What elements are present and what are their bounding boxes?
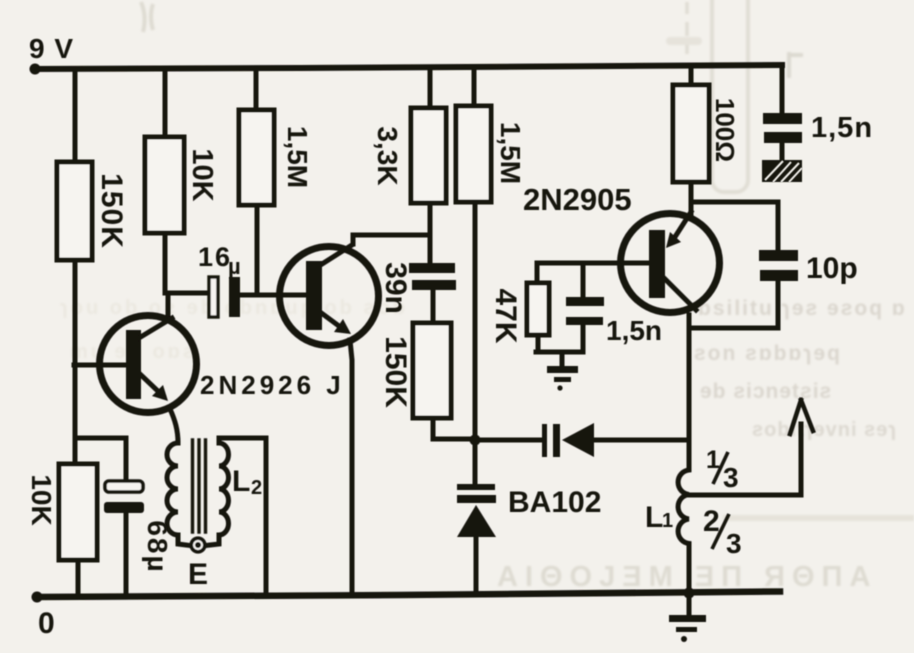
wire node to series diode	[475, 438, 543, 443]
wire R8 bottom to varicap node	[433, 418, 475, 439]
svg-text:BA102: BA102	[508, 486, 601, 519]
svg-text:10K: 10K	[186, 148, 218, 201]
terminal E dot	[195, 542, 201, 548]
wire Q3 collector to L1	[687, 315, 692, 440]
svg-text:2N2926 J: 2N2926 J	[200, 370, 345, 400]
wire series diode to L1 top	[594, 438, 689, 443]
transistor Q1 collector stroke	[139, 318, 172, 338]
svg-text:1,5n: 1,5n	[811, 112, 873, 144]
svg-text:2: 2	[703, 505, 720, 538]
svg-text:3: 3	[726, 528, 742, 559]
svg-text:150K: 150K	[95, 173, 128, 249]
ground L1 bar2	[676, 627, 697, 632]
wire C4 bottom lead	[581, 325, 586, 352]
wire C3 to R8 150K	[431, 290, 436, 323]
wire C6 bottom to Q3 collector	[689, 281, 778, 328]
node varicap junction dot	[470, 435, 481, 446]
svg-text:µ: µ	[228, 254, 241, 279]
transistor Q3 collector stroke	[664, 278, 696, 310]
chassis ground hatched block	[762, 160, 802, 182]
svg-text:47K: 47K	[489, 288, 522, 343]
wire emitter node to C6 10p	[691, 202, 778, 250]
svg-text:L: L	[232, 465, 250, 498]
svg-text:39n: 39n	[379, 262, 412, 314]
wire junction down to Q1 collector	[166, 293, 171, 316]
resistor R6 100	[673, 85, 709, 182]
wire node down to D1 BA102	[473, 440, 478, 484]
capacitor C3 39n bottom plate	[412, 280, 456, 290]
wire Q2 emitter to 0 rail	[350, 340, 352, 595]
diode D1 BA102 bar	[457, 495, 496, 503]
inductor L2 secondary coil	[219, 443, 229, 535]
ground stub below L1	[687, 594, 692, 615]
node L1 ground junction dot	[684, 588, 695, 599]
ghost mark top right	[789, 52, 803, 78]
svg-text:0: 0	[38, 607, 55, 640]
svg-text:1,5M: 1,5M	[282, 126, 313, 188]
wire Q3 base	[537, 261, 649, 266]
wire rail end drop to C5 1,5n	[780, 65, 785, 113]
svg-text:ɘb ƨiɔnɘtƨiƨ: ɘb ƨiɔnɘtƨiƨ	[700, 380, 832, 403]
ground L1 dot	[681, 636, 687, 642]
ground bias bar2	[554, 377, 571, 382]
terminal E ring	[191, 538, 205, 552]
wire C5 to chassis ground	[780, 143, 785, 161]
transistor Q2 base bar	[306, 261, 322, 330]
svg-text:1,5n: 1,5n	[606, 315, 662, 346]
wire Q1 emitter to L2	[170, 409, 178, 443]
resistor R4 3,3K	[411, 108, 446, 203]
wire D1 to 0 rail	[474, 537, 479, 594]
wire C1 to Q2 base	[240, 293, 307, 298]
wire R2 bottom to C1 junction	[163, 233, 168, 293]
ground bias bar1	[547, 366, 578, 373]
transistor Q2 emitter arrowhead	[334, 319, 351, 334]
ground stub bias network	[560, 352, 565, 366]
wire R1 bottom to base column	[73, 260, 78, 464]
capacitor C2 68u bottom plate	[104, 502, 144, 513]
resistor R3 1,5M	[239, 110, 274, 205]
transistor Q2 collector stroke	[322, 245, 352, 264]
wire L2 secondary top to ground line	[219, 438, 266, 595]
svg-text:3,3K: 3,3K	[372, 126, 403, 185]
transistor Q1 2N2926 circle	[100, 316, 197, 413]
transistor Q2 circle	[280, 247, 379, 346]
svg-text:1: 1	[662, 510, 673, 532]
transistor Q3 2N2905 circle	[621, 214, 720, 313]
antenna arrowhead	[790, 400, 813, 434]
wire 0 bottom rail	[37, 592, 780, 598]
svg-text:10K: 10K	[26, 474, 57, 525]
wire R3 bottom to Q2 base node	[255, 205, 260, 295]
ghost marks top left	[141, 2, 153, 32]
wire L1 tap to antenna	[690, 424, 801, 495]
resistor R2 10K	[145, 137, 184, 233]
node 0 rail dot	[32, 592, 43, 603]
wire Q2 collector to R4/C3 junction	[353, 235, 430, 244]
inductor L1 coil	[678, 440, 689, 594]
wire R7 bottom to 0 rail	[76, 560, 81, 596]
wire base corner to R9 47K	[535, 263, 540, 283]
svg-text:1,5M: 1,5M	[495, 122, 526, 184]
svg-text:L: L	[645, 501, 663, 534]
wire tee to C2 68u	[75, 438, 126, 481]
svg-text:100Ω: 100Ω	[710, 98, 740, 162]
wire R4 bottom to C3 39n	[428, 203, 433, 263]
transistor Q3 emitter stroke	[673, 212, 691, 240]
capacitor C2 68u top plate	[105, 481, 143, 492]
node 9V rail dot	[30, 64, 41, 75]
resistor R8 150K	[413, 323, 451, 418]
svg-text:2N2905: 2N2905	[523, 182, 632, 217]
diode D1 BA102 triangle	[457, 505, 496, 537]
label tap 1/3 slash	[713, 452, 728, 484]
ground L1 bar1	[669, 615, 706, 622]
wire L2 secondary bottom to E terminal	[206, 535, 219, 546]
ghost dashed line top right	[685, 2, 689, 54]
wire bias bottom bus	[536, 350, 583, 355]
transistor Q2 emitter stroke	[320, 312, 343, 329]
capacitor C6 10p bottom plate	[760, 270, 798, 281]
wire rail drop to R5 1,5M	[472, 67, 477, 106]
capacitor C1 16u left plate	[209, 277, 218, 317]
svg-text:2: 2	[251, 477, 262, 499]
capacitor C4 1,5n bottom plate	[566, 317, 603, 325]
svg-text:ɒsilitu ɿɘƨ ɘƨoq ɒ: ɒsilitu ɿɘƨ ɘƨoq ɒ	[698, 297, 907, 320]
resistor R9 47K	[527, 283, 549, 335]
wire R5 bottom to varicap node	[473, 202, 478, 440]
wire R9 bottom	[537, 335, 538, 352]
svg-text:3: 3	[723, 462, 739, 493]
wire R6 bottom to Q3 emitter	[689, 182, 694, 214]
wire L2 primary bottom to E terminal	[178, 535, 190, 546]
wire rail drop to R6 100	[689, 66, 694, 85]
ghost column top right	[712, 0, 748, 192]
capacitor series right plate	[553, 424, 560, 457]
wire C4 top lead	[581, 263, 586, 297]
inductor L2 core lines	[193, 440, 206, 532]
wire rail drop to R4 3,3K	[428, 67, 433, 108]
capacitor C5 1,5n top plate	[763, 113, 802, 124]
wire rail drop to R3 1,5M	[254, 68, 259, 110]
svg-text:9 V: 9 V	[29, 33, 74, 64]
wire junction to C1 16u	[165, 291, 210, 296]
svg-text:E: E	[188, 558, 208, 591]
resistor R7 10K lower	[59, 464, 97, 560]
svg-text:68µ: 68µ	[142, 520, 173, 573]
transistor Q1 emitter arrowhead	[152, 385, 168, 401]
wire 9V top rail	[35, 65, 782, 69]
inductor L2 primary coil	[167, 443, 178, 535]
resistor R1 150K	[57, 162, 92, 260]
ground bias dot	[557, 385, 562, 390]
svg-text:16: 16	[198, 242, 232, 272]
wire rail drop to R2 10K	[163, 68, 168, 137]
svg-text:10p: 10p	[806, 252, 858, 285]
svg-text:ƨobitɿɘvni ƨɘɿ: ƨobitɿɘvni ƨɘɿ	[752, 419, 897, 441]
capacitor series left plate	[542, 424, 547, 457]
capacitor C6 10p top plate	[759, 250, 798, 261]
wire C2 to 0 rail	[124, 513, 129, 596]
svg-text:150K: 150K	[379, 336, 412, 408]
wire rail drop to R1 150K	[73, 69, 78, 162]
diode series triangle	[562, 423, 594, 457]
wire base tap to Q1	[74, 363, 127, 368]
ghost light rule	[723, 515, 914, 521]
transistor Q3 emitter arrowhead	[666, 232, 681, 248]
label tap 2/3 slash	[712, 514, 729, 549]
capacitor C3 39n top plate	[409, 263, 455, 273]
ghost smudge top right	[666, 37, 702, 45]
hatched ground white stripes	[765, 161, 802, 182]
transistor Q3 base bar	[649, 230, 665, 298]
capacitor C4 1,5n top plate	[566, 297, 604, 306]
resistor R5 1,5M	[456, 106, 491, 202]
capacitor C5 1,5n bottom plate	[764, 132, 802, 143]
transistor Q1 emitter stroke	[140, 374, 163, 396]
diode D1 BA102 top plate	[457, 484, 495, 490]
transistor Q1 base bar	[126, 330, 141, 399]
capacitor C1 16u right plate	[229, 277, 240, 317]
svg-text:ƨon ƨɒbɒɿɘq: ƨon ƨɒbɒɿɘq	[694, 342, 842, 365]
